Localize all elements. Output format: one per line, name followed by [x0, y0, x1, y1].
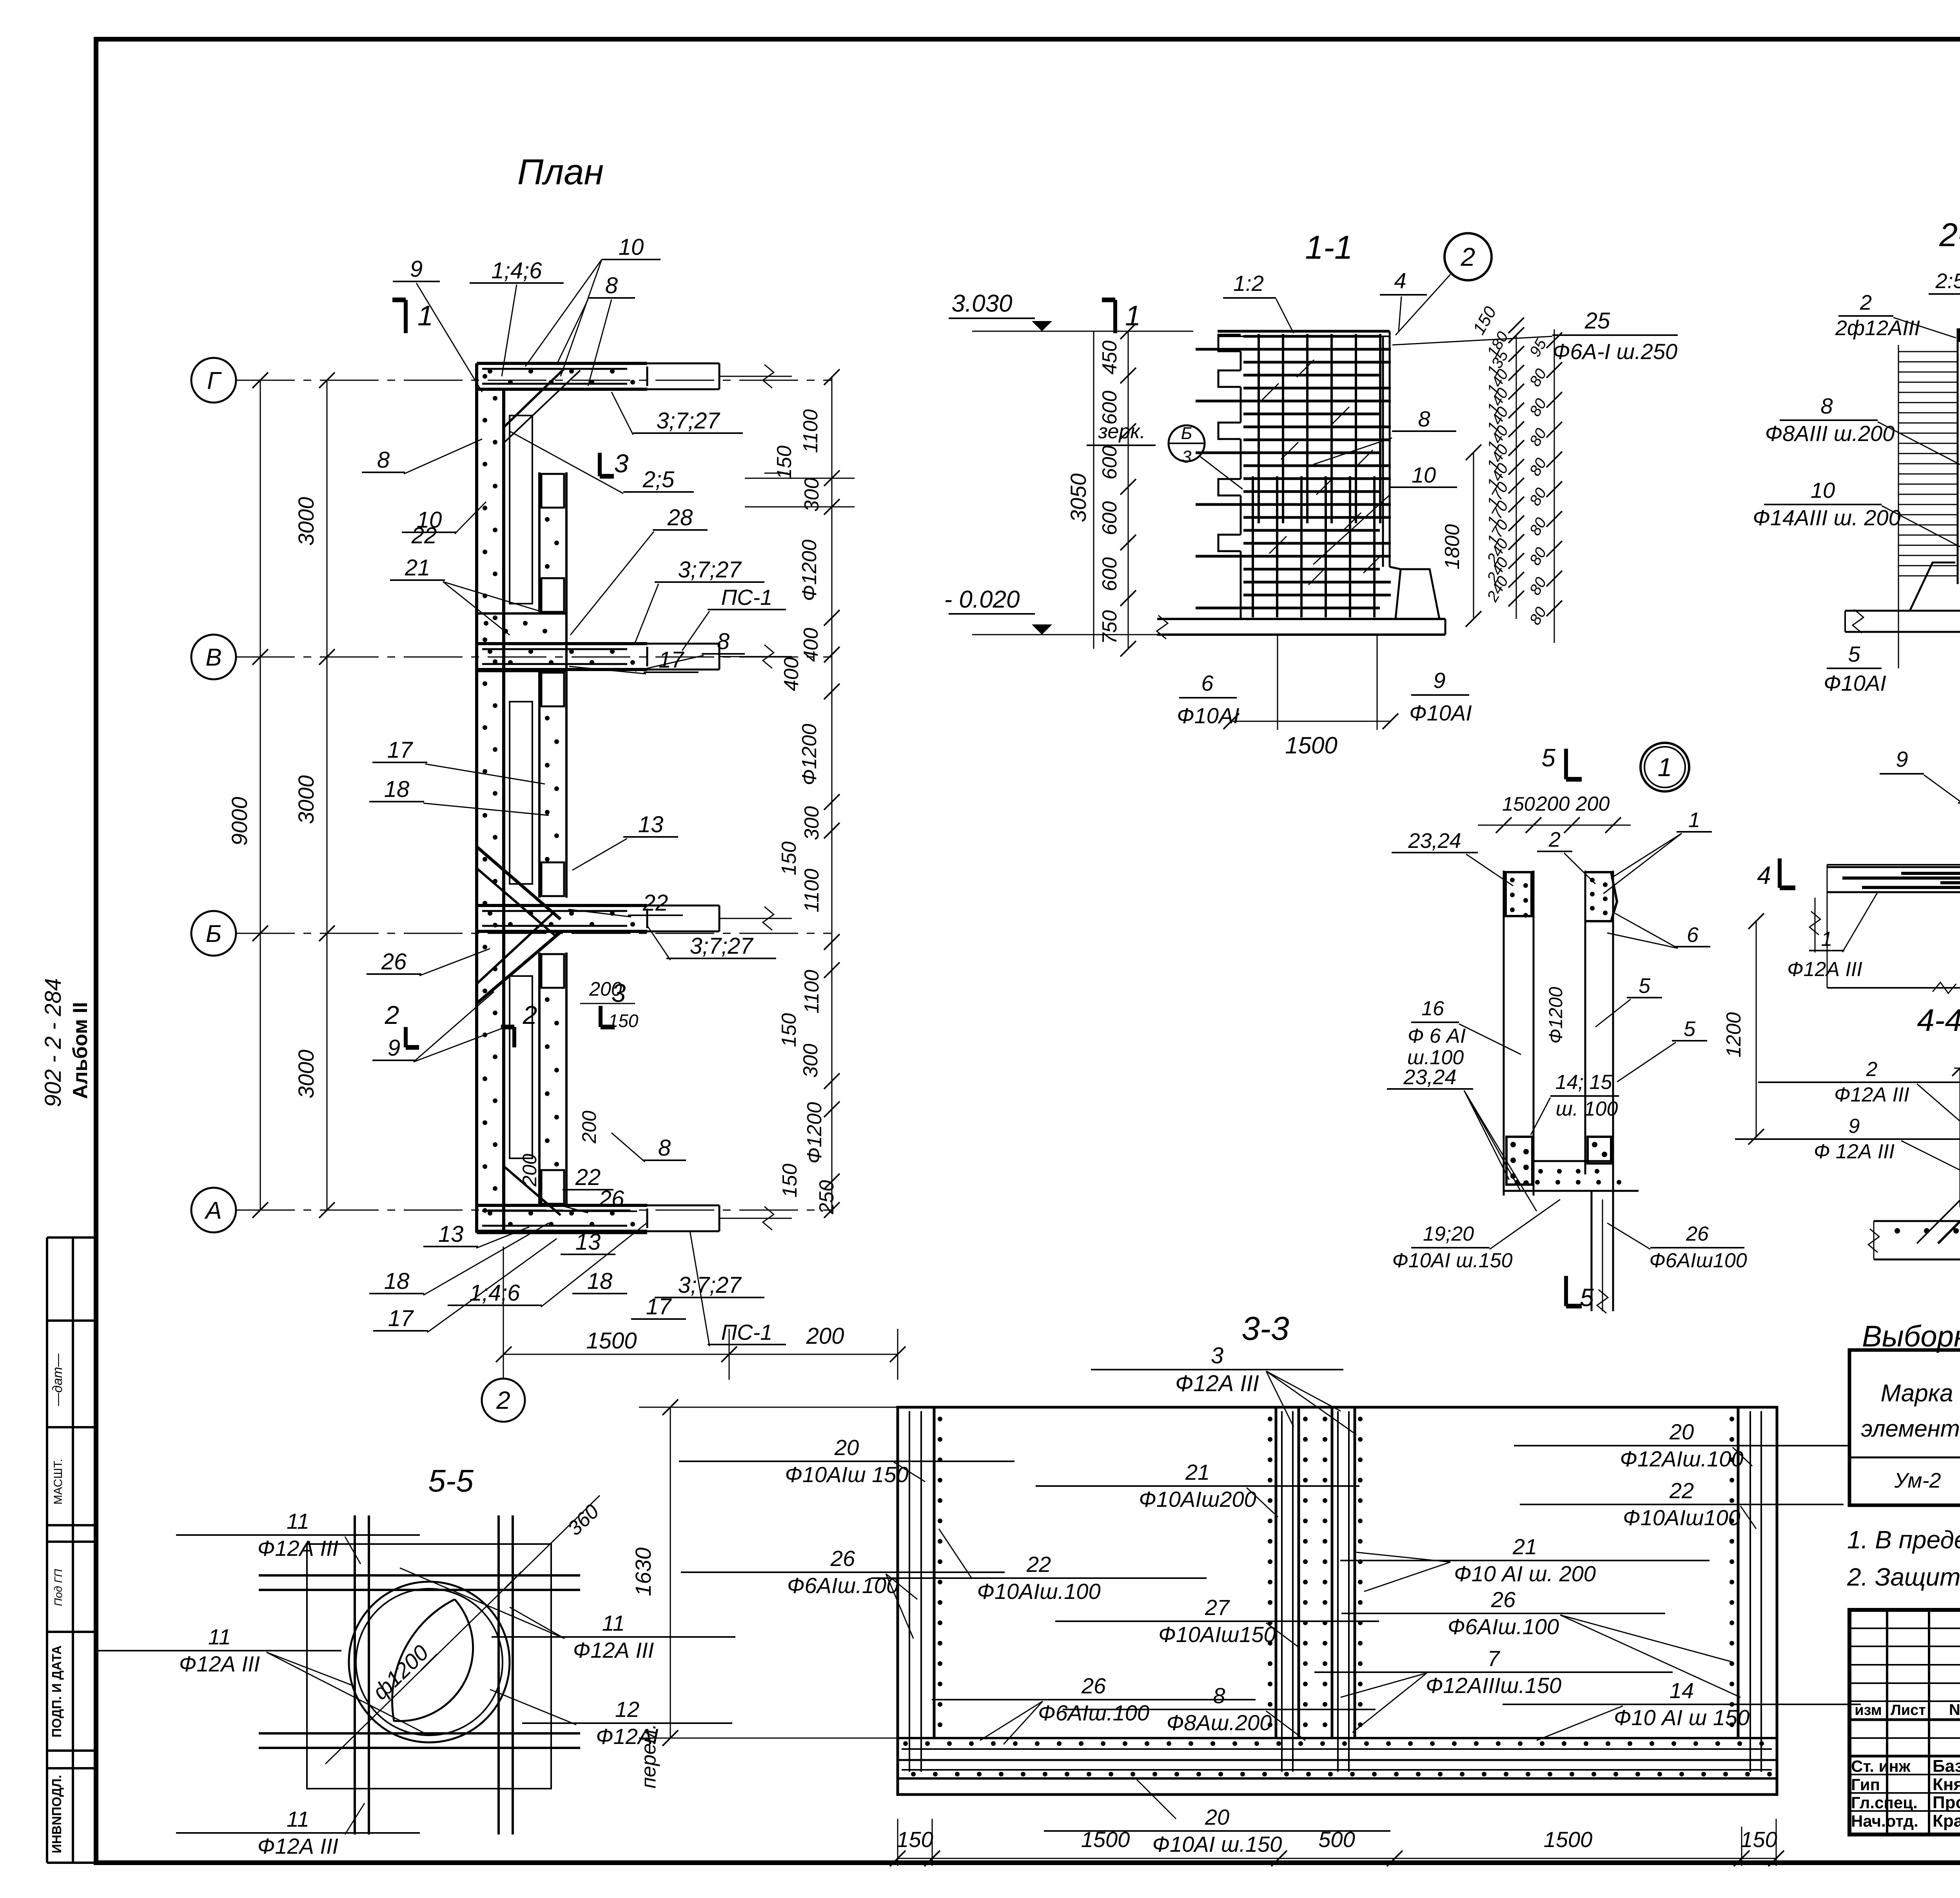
svg-text:3050: 3050: [1066, 474, 1091, 523]
svg-text:18: 18: [384, 777, 410, 802]
svg-text:3: 3: [614, 449, 629, 478]
svg-text:1;4;6: 1;4;6: [470, 1280, 521, 1306]
svg-text:600: 600: [1098, 446, 1121, 480]
svg-text:Ф6АIш.100: Ф6АIш.100: [787, 1573, 898, 1598]
svg-text:6: 6: [1687, 923, 1699, 947]
svg-text:23,24: 23,24: [1408, 829, 1461, 853]
svg-text:Нач.отд.: Нач.отд.: [1851, 1812, 1918, 1830]
svg-text:Ф6АIш.100: Ф6АIш.100: [1448, 1614, 1559, 1639]
svg-text:1630: 1630: [631, 1548, 655, 1597]
svg-text:ПОДП. И ДАТА: ПОДП. И ДАТА: [49, 1645, 64, 1737]
svg-text:22: 22: [575, 1165, 601, 1190]
svg-text:17: 17: [387, 737, 414, 763]
svg-text:11: 11: [602, 1611, 625, 1635]
svg-text:В: В: [205, 644, 221, 671]
svg-text:Ф12А III: Ф12А III: [1787, 958, 1862, 981]
svg-text:2:5: 2:5: [1935, 269, 1960, 293]
svg-text:5: 5: [1580, 1283, 1594, 1312]
svg-text:—дат—: —дат—: [50, 1353, 65, 1406]
svg-text:20: 20: [1205, 1805, 1229, 1829]
svg-text:22: 22: [411, 523, 437, 548]
svg-text:26: 26: [1686, 1223, 1709, 1245]
svg-text:17: 17: [659, 647, 685, 673]
svg-text:Ф10 АI ш. 200: Ф10 АI ш. 200: [1454, 1561, 1596, 1586]
svg-text:250: 250: [815, 1180, 838, 1215]
svg-text:Ф12А III: Ф12А III: [258, 1834, 338, 1858]
svg-text:5: 5: [1541, 744, 1555, 772]
svg-text:Ум-2: Ум-2: [1894, 1469, 1941, 1492]
svg-text:200: 200: [806, 1323, 844, 1349]
svg-text:20: 20: [1669, 1419, 1694, 1444]
svg-text:8: 8: [717, 629, 730, 654]
svg-text:27: 27: [1205, 1595, 1230, 1620]
svg-text:26: 26: [1491, 1587, 1516, 1612]
svg-text:6: 6: [1201, 671, 1214, 695]
svg-text:1100: 1100: [800, 869, 823, 913]
svg-text:1100: 1100: [800, 970, 823, 1014]
svg-text:1:2: 1:2: [1233, 271, 1264, 296]
svg-text:МАСШТ.: МАСШТ.: [52, 1459, 65, 1505]
svg-text:13: 13: [438, 1221, 464, 1247]
svg-text:Ф10АIш200: Ф10АIш200: [1139, 1487, 1256, 1512]
svg-text:Ф10АI: Ф10АI: [1409, 700, 1472, 725]
svg-text:10: 10: [619, 234, 644, 260]
svg-text:150: 150: [1740, 1827, 1777, 1852]
svg-text:3;7;27: 3;7;27: [678, 1272, 742, 1298]
svg-text:10: 10: [1412, 463, 1436, 487]
svg-text:Ф6АIш100: Ф6АIш100: [1649, 1249, 1747, 1272]
svg-text:ПС-1: ПС-1: [721, 585, 773, 610]
svg-text:Ф1200: Ф1200: [803, 1102, 826, 1163]
svg-text:11: 11: [287, 1807, 309, 1831]
svg-text:Ф12А III: Ф12А III: [573, 1638, 654, 1662]
svg-text:3000: 3000: [294, 1050, 318, 1099]
svg-text:Ф10 АI ш 150: Ф10 АI ш 150: [1614, 1705, 1749, 1730]
svg-text:2: 2: [1548, 828, 1561, 851]
svg-text:2: 2: [1860, 291, 1872, 314]
svg-text:2ф12АIII: 2ф12АIII: [1835, 316, 1920, 340]
svg-text:Пронин: Пронин: [1933, 1793, 1960, 1812]
svg-text:26: 26: [599, 1186, 624, 1212]
svg-text:Гип: Гип: [1851, 1775, 1880, 1794]
svg-text:3000: 3000: [294, 775, 318, 824]
svg-text:8: 8: [377, 447, 390, 473]
svg-text:200: 200: [1575, 793, 1610, 815]
svg-text:23,24: 23,24: [1403, 1065, 1456, 1089]
svg-text:18: 18: [587, 1268, 613, 1294]
svg-text:Базанов: Базанов: [1933, 1756, 1960, 1776]
svg-text:11: 11: [287, 1509, 309, 1533]
svg-text:Ф14АIII ш. 200: Ф14АIII ш. 200: [1753, 505, 1900, 530]
svg-text:600: 600: [1098, 501, 1121, 535]
svg-text:3;7;27: 3;7;27: [690, 933, 754, 959]
svg-text:3-3: 3-3: [1241, 1310, 1289, 1347]
svg-text:7: 7: [1487, 1646, 1500, 1671]
svg-text:200: 200: [589, 978, 622, 1000]
svg-text:150: 150: [608, 1011, 639, 1031]
svg-text:4: 4: [1757, 861, 1771, 889]
svg-text:17: 17: [388, 1306, 414, 1331]
svg-text:Nдокум .: Nдокум .: [1949, 1701, 1960, 1718]
svg-text:9: 9: [1896, 747, 1908, 771]
svg-text:26: 26: [830, 1546, 855, 1571]
svg-text:2-2: 2-2: [1939, 216, 1960, 253]
svg-text:25: 25: [1584, 308, 1610, 334]
svg-text:21: 21: [1185, 1460, 1210, 1484]
svg-text:Ф 12А III: Ф 12А III: [1814, 1140, 1895, 1163]
svg-text:Гл.спец.: Гл.спец.: [1851, 1793, 1918, 1812]
svg-text:14: 14: [1670, 1678, 1694, 1703]
svg-text:Ф1200: Ф1200: [798, 724, 821, 785]
svg-text:20: 20: [834, 1435, 859, 1460]
svg-text:902 - 2 - 284: 902 - 2 - 284: [40, 978, 66, 1107]
svg-text:2: 2: [1461, 242, 1475, 271]
svg-text:Ф12А III: Ф12А III: [1175, 1371, 1259, 1396]
svg-text:450: 450: [1098, 341, 1121, 375]
svg-text:Ф10АI: Ф10АI: [1824, 671, 1886, 695]
svg-text:1-1: 1-1: [1305, 229, 1352, 266]
svg-text:3: 3: [1211, 1343, 1223, 1368]
svg-text:Марка: Марка: [1880, 1380, 1953, 1407]
svg-text:Лист: Лист: [1891, 1702, 1926, 1718]
svg-text:28: 28: [667, 505, 693, 530]
svg-text:Ф8АIII ш.200: Ф8АIII ш.200: [1765, 421, 1895, 446]
svg-text:Ф12АIIIш.150: Ф12АIIIш.150: [1426, 1673, 1561, 1698]
svg-text:5: 5: [1684, 1017, 1696, 1041]
svg-text:Ст. инж: Ст. инж: [1851, 1757, 1911, 1775]
svg-text:1: 1: [1821, 928, 1833, 951]
svg-text:элемента: элемента: [1861, 1415, 1960, 1442]
svg-text:Ф10АI: Ф10АI: [1177, 703, 1240, 728]
svg-text:150: 150: [779, 1164, 801, 1198]
svg-text:300: 300: [800, 478, 823, 512]
svg-text:9: 9: [1849, 1115, 1860, 1138]
svg-text:22: 22: [1669, 1478, 1694, 1503]
svg-text:400: 400: [800, 628, 822, 662]
svg-text:600: 600: [1098, 391, 1121, 425]
svg-text:Ф12А III: Ф12А III: [258, 1536, 338, 1560]
svg-text:Ф8Аш.200: Ф8Аш.200: [1167, 1710, 1272, 1735]
svg-text:Красавин: Красавин: [1933, 1811, 1960, 1831]
svg-text:150: 150: [778, 1013, 800, 1047]
svg-text:Ф12А III: Ф12А III: [179, 1651, 260, 1676]
svg-text:10: 10: [1811, 478, 1835, 503]
svg-text:Ф1200: Ф1200: [1546, 987, 1566, 1043]
svg-text:Княгиничев: Княгиничев: [1933, 1775, 1960, 1794]
svg-text:Ф10АIш.100: Ф10АIш.100: [977, 1579, 1100, 1604]
svg-text:5: 5: [1639, 974, 1651, 998]
svg-text:4-4: 4-4: [1917, 1003, 1960, 1038]
svg-text:3: 3: [1182, 447, 1192, 466]
svg-text:300: 300: [799, 1044, 822, 1078]
svg-text:21: 21: [1512, 1534, 1537, 1559]
svg-text:1: 1: [1658, 753, 1672, 782]
svg-text:200: 200: [1535, 793, 1570, 815]
svg-text:14; 15: 14; 15: [1555, 1071, 1613, 1094]
svg-text:8: 8: [605, 273, 618, 298]
svg-text:400: 400: [780, 657, 803, 691]
svg-text:4: 4: [1394, 268, 1406, 293]
svg-text:План: План: [517, 152, 604, 192]
svg-text:1: 1: [1688, 808, 1700, 832]
svg-text:Ф12АIш.100: Ф12АIш.100: [1620, 1446, 1743, 1471]
svg-text:Выборка арматуры на один элеме: Выборка арматуры на один элемент: [1862, 1320, 1960, 1353]
svg-text:Ф6А-I ш.250: Ф6А-I ш.250: [1553, 339, 1677, 364]
svg-text:2. Защитный слой бетона принят: 2. Защитный слой бетона принять равным 2…: [1847, 1563, 1960, 1591]
svg-text:Ф1200: Ф1200: [798, 539, 821, 601]
svg-text:9: 9: [388, 1035, 400, 1061]
svg-text:200: 200: [578, 1110, 600, 1144]
svg-text:Ф6АIш.100: Ф6АIш.100: [1038, 1700, 1149, 1725]
svg-text:13: 13: [575, 1229, 601, 1255]
svg-text:9: 9: [410, 256, 423, 282]
svg-text:1200: 1200: [1722, 1012, 1745, 1058]
svg-text:- 0.020: - 0.020: [944, 586, 1020, 613]
svg-text:1500: 1500: [1544, 1827, 1593, 1852]
svg-text:Г: Г: [207, 367, 222, 394]
svg-text:8: 8: [1213, 1683, 1225, 1708]
svg-text:ИНВNПОДЛ.: ИНВNПОДЛ.: [49, 1775, 64, 1853]
svg-text:500: 500: [1318, 1827, 1355, 1852]
svg-text:А: А: [204, 1197, 221, 1224]
svg-text:26: 26: [1081, 1673, 1106, 1698]
svg-text:1800: 1800: [1441, 524, 1464, 570]
svg-text:1500: 1500: [1081, 1827, 1130, 1852]
svg-text:16: 16: [1421, 997, 1444, 1020]
svg-text:ш. 100: ш. 100: [1556, 1098, 1618, 1120]
svg-text:Ф10АI ш.150: Ф10АI ш.150: [1392, 1249, 1512, 1272]
svg-text:11: 11: [208, 1624, 231, 1649]
svg-text:1. В пределах отверстий армату: 1. В пределах отверстий арматуру вырезат…: [1847, 1526, 1960, 1554]
svg-text:Б: Б: [1181, 424, 1192, 443]
svg-text:150: 150: [897, 1827, 933, 1852]
svg-text:26: 26: [381, 949, 407, 974]
svg-text:2: 2: [1866, 1058, 1878, 1081]
svg-text:Ф 6 АI: Ф 6 АI: [1408, 1025, 1466, 1047]
svg-text:1: 1: [417, 300, 433, 332]
svg-text:21: 21: [405, 555, 430, 581]
svg-text:Б: Б: [206, 920, 221, 947]
svg-text:Ф12АI: Ф12АI: [596, 1724, 659, 1749]
svg-text:150: 150: [773, 446, 796, 480]
svg-text:19;20: 19;20: [1423, 1223, 1474, 1245]
svg-text:1500: 1500: [1285, 732, 1337, 758]
svg-text:13: 13: [638, 812, 664, 837]
svg-text:2: 2: [496, 1386, 510, 1414]
svg-text:600: 600: [1098, 557, 1121, 592]
svg-text:зерк.: зерк.: [1098, 420, 1145, 443]
svg-text:3;7;27: 3;7;27: [678, 557, 742, 582]
svg-text:1100: 1100: [799, 409, 822, 453]
svg-text:Ф10АIш 150: Ф10АIш 150: [785, 1462, 908, 1487]
svg-text:300: 300: [800, 806, 823, 840]
svg-text:2: 2: [523, 1000, 537, 1029]
svg-text:8: 8: [1418, 406, 1430, 431]
svg-text:750: 750: [1098, 610, 1121, 644]
svg-text:18: 18: [384, 1268, 410, 1294]
svg-text:8: 8: [1820, 394, 1833, 418]
svg-text:150: 150: [1502, 793, 1535, 815]
svg-text:22: 22: [1026, 1552, 1051, 1577]
svg-text:3;7;27: 3;7;27: [656, 408, 720, 434]
svg-text:Альбом II: Альбом II: [69, 1002, 92, 1099]
svg-text:2;5: 2;5: [642, 467, 675, 492]
svg-text:3.030: 3.030: [951, 290, 1012, 317]
svg-text:9000: 9000: [227, 797, 252, 846]
svg-text:Под ГП: Под ГП: [52, 1569, 64, 1606]
svg-text:5-5: 5-5: [428, 1463, 474, 1498]
svg-text:1;4;6: 1;4;6: [492, 258, 543, 283]
svg-text:2: 2: [385, 1000, 399, 1029]
svg-text:22: 22: [642, 890, 668, 916]
svg-text:Ф12А III: Ф12А III: [1834, 1083, 1909, 1106]
svg-text:1500: 1500: [586, 1328, 637, 1354]
svg-text:8: 8: [658, 1135, 671, 1161]
svg-text:9: 9: [1433, 668, 1445, 693]
svg-text:Ф10АIш150: Ф10АIш150: [1158, 1622, 1276, 1647]
svg-text:150: 150: [778, 842, 800, 876]
svg-text:ПС-1: ПС-1: [721, 1320, 773, 1345]
svg-text:3000: 3000: [294, 497, 318, 546]
svg-text:12: 12: [615, 1697, 639, 1722]
svg-text:200: 200: [519, 1154, 541, 1187]
svg-text:Ф10АI ш.150: Ф10АI ш.150: [1152, 1832, 1282, 1856]
svg-text:5: 5: [1848, 642, 1860, 666]
svg-text:Ф10АIш100: Ф10АIш100: [1623, 1505, 1740, 1530]
